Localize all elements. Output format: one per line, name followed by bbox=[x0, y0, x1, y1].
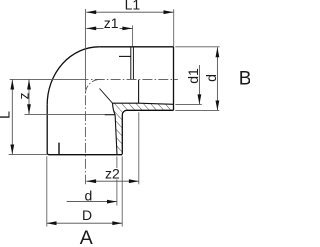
z2 dim line bbox=[86, 180, 139, 182]
z arrows bbox=[27, 80, 31, 90]
L1 arrows bbox=[86, 10, 96, 14]
bottom right ext (d) bbox=[175, 109, 219, 111]
top right ext (d) bbox=[175, 46, 219, 48]
bore top line, right outlet bbox=[119, 55, 131, 57]
centerline bend arc bbox=[85, 79, 100, 94]
D left ext bbox=[46, 156, 48, 226]
arrowheads bbox=[10, 10, 219, 225]
svg-text:D: D bbox=[82, 207, 92, 223]
D arrows bbox=[47, 221, 57, 225]
svg-text:L: L bbox=[0, 111, 12, 119]
bottom socket inner wall bbox=[115, 115, 117, 155]
z1 bbox=[104, 15, 120, 31]
svg-text:A: A bbox=[80, 227, 93, 247]
D right ext bbox=[121, 156, 123, 226]
svg-text:z2: z2 bbox=[105, 165, 120, 181]
svg-text:L1: L1 bbox=[125, 0, 141, 13]
z2 bbox=[105, 165, 121, 181]
z1 ext bbox=[132, 25, 134, 46]
d bottom dim line bbox=[67, 201, 117, 203]
socket cavity bottom bbox=[113, 103, 174, 104]
z ext (socket end plane) bbox=[25, 113, 105, 115]
internal lines bbox=[100, 47, 174, 155]
D dim line bbox=[47, 222, 123, 224]
svg-text:B: B bbox=[239, 68, 250, 89]
cylinder intersection 45deg edge bbox=[100, 89, 113, 104]
L1 dim line bbox=[86, 11, 173, 13]
bottom socket end face bbox=[105, 114, 116, 116]
bottom edge of right arm + outer corner fillet bbox=[122, 110, 173, 154]
svg-text:d: d bbox=[85, 187, 93, 203]
right face bbox=[173, 47, 175, 111]
d1 right dim line bbox=[198, 65, 200, 104]
label l (socket depth mark) bbox=[58, 143, 59, 155]
d bottom ext bbox=[116, 156, 118, 205]
d1 ext bbox=[175, 103, 202, 105]
L dim line bbox=[11, 80, 13, 155]
outer outline bbox=[47, 47, 173, 155]
z2 right ext bbox=[138, 112, 140, 184]
svg-text:d: d bbox=[203, 74, 219, 82]
outer curve bbox=[47, 47, 99, 105]
inner corner fillet bbox=[113, 103, 116, 115]
svg-text:d1: d1 bbox=[185, 68, 201, 84]
d bottom arrow bbox=[107, 200, 117, 204]
d right arrows bbox=[216, 47, 220, 57]
top edge bbox=[99, 46, 173, 48]
bottom face bbox=[47, 105, 122, 155]
bottom face ext to left bbox=[9, 154, 47, 156]
svg-text:z: z bbox=[15, 93, 31, 100]
vertical centerline (also ext for L1/z1/z2) bbox=[84, 9, 86, 90]
svg-text:z1: z1 bbox=[104, 15, 119, 31]
z1 arrows bbox=[86, 27, 96, 31]
z dim line bbox=[28, 80, 30, 115]
socket end upper (outside step) bbox=[130, 47, 132, 79]
left horiz ext (center ref) bbox=[10, 78, 89, 80]
L arrows bbox=[10, 80, 14, 90]
socket end lower (section) bbox=[138, 80, 140, 103]
z1 dim line bbox=[86, 27, 132, 29]
L1 ext bbox=[173, 9, 175, 46]
technical drawing: 90 degree elbow socket fitting with dimensions bbox=[0, 0, 250, 247]
d1 arrow bbox=[198, 94, 202, 104]
wall section hatch (L-shaped band, right-arm bottom wall + bottom-arm right wall) bbox=[113, 103, 174, 155]
horizontal centerline bbox=[91, 78, 178, 80]
z2 arrows bbox=[86, 179, 96, 183]
d right dim line bbox=[216, 47, 218, 110]
